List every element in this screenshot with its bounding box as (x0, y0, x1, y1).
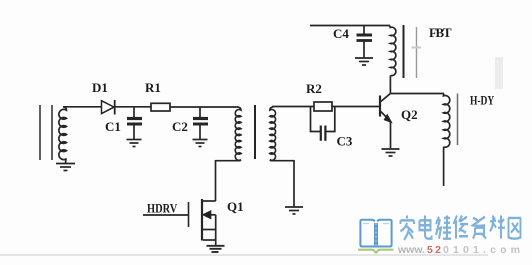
capacitor C3 parallel branch (311, 107, 335, 141)
transistor Q1 (189, 199, 216, 245)
svg-text:C3: C3 (337, 134, 353, 149)
wire T2 primary bottom to Q1 drain (215, 160, 217, 201)
svg-text:FBT: FBT (429, 25, 452, 40)
svg-text:www.: www. (397, 244, 425, 256)
watermark chinese text zi (473, 217, 486, 239)
transistor Q2 (380, 94, 391, 148)
svg-text:C2: C2 (172, 119, 188, 134)
FBT core line 2 (faint) (412, 27, 422, 78)
scan smudge artifact (495, 57, 503, 89)
capacitor C4 (357, 26, 373, 58)
resistor R2 (314, 102, 332, 111)
wire Q2 collector net to H-DY (390, 93, 444, 95)
wire top net B (310, 25, 390, 27)
watermark book logo (358, 220, 394, 253)
svg-text:H-DY: H-DY (470, 94, 494, 108)
wire T2 top to R2 (272, 106, 314, 108)
transformer T2 secondary winding (270, 107, 294, 207)
diode D1 (102, 100, 115, 115)
capacitor C2 (193, 107, 208, 140)
capacitor C1 (127, 107, 142, 140)
watermark chinese text wang (508, 218, 521, 239)
watermark chinese text wei (436, 216, 451, 239)
H-DY deflection coil (443, 94, 449, 186)
wire HDRV to Q1 gate (143, 214, 188, 216)
svg-text:R2: R2 (306, 81, 322, 96)
wire R1 to T2 (170, 106, 238, 108)
wire D1 to R1 (115, 106, 151, 108)
watermark underline (0, 254, 488, 256)
svg-text:D1: D1 (92, 80, 108, 95)
flyback FBT primary winding (389, 26, 396, 94)
svg-text:HDRV: HDRV (147, 201, 178, 215)
FBT core line (403, 25, 405, 78)
svg-text:C4: C4 (333, 26, 349, 41)
H-DY yoke core line (457, 94, 459, 146)
svg-text:Q2: Q2 (401, 107, 418, 122)
ground below C2 (193, 140, 208, 147)
watermark chinese text liao (490, 216, 505, 239)
ground G3 (207, 246, 225, 252)
transformer T1 core (40, 105, 52, 160)
transformer T2 core (254, 105, 256, 159)
ground G1 (56, 164, 75, 171)
ground G5 (382, 149, 400, 156)
svg-text:C1: C1 (105, 119, 121, 134)
watermark chinese text xiu (454, 216, 469, 239)
ground G2 (285, 207, 303, 214)
watermark chinese text jia (401, 216, 415, 240)
ground below C1 (127, 140, 142, 147)
watermark chinese text dian (420, 216, 432, 239)
transformer T1 winding (59, 107, 67, 163)
wire R2 to Q2 base (332, 106, 379, 108)
wire node A (63, 106, 102, 108)
ground G4 (355, 58, 373, 65)
svg-text:R1: R1 (145, 80, 161, 95)
resistor R1 (151, 103, 170, 111)
watermark url (397, 244, 520, 256)
transformer T2 primary winding (216, 107, 242, 161)
svg-text:Q1: Q1 (227, 199, 244, 214)
